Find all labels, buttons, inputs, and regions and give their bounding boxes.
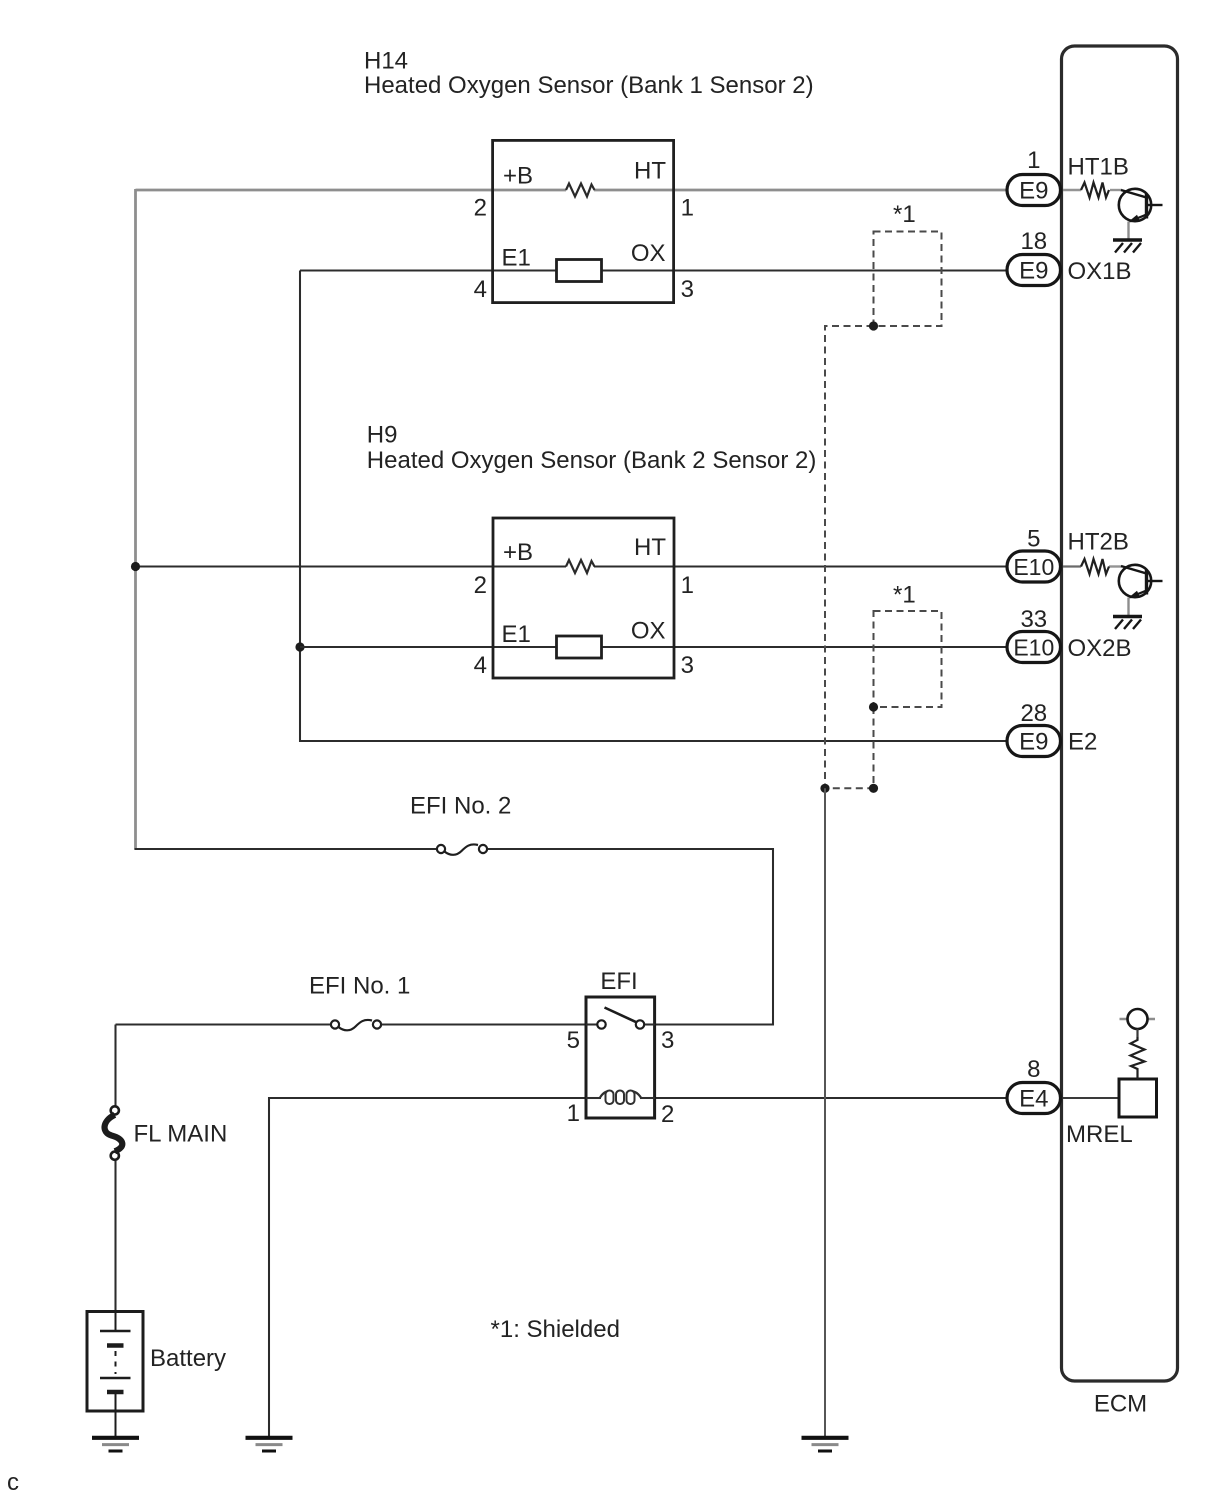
shield drain dashed run from box2 [825,707,874,788]
svg-text:+B: +B [503,539,533,566]
wire: MREL to driver block [1063,1097,1119,1099]
svg-text:E2: E2 [1068,729,1097,756]
wire: +B feed H14 (gray) horizontal y=190 right part to E9 pin1 [594,189,1008,192]
svg-text:EFI: EFI [600,968,637,995]
svg-text:5: 5 [1027,526,1040,553]
fuse EFI No.2 [437,844,487,1028]
ground (battery negative) [92,1438,139,1451]
relay switch wire stubs [586,1023,598,1025]
relay EFI box [586,997,655,1118]
svg-text:E9: E9 [1019,729,1048,756]
svg-text:E9: E9 [1019,178,1048,205]
battery feed symbol (circle) above MREL resistor [1120,1018,1156,1020]
svg-text:HT: HT [634,534,666,561]
wire: HT2B inside ECM (gray) [1063,565,1081,567]
svg-text:1: 1 [1027,147,1040,174]
detection element (zirconia cell) H14 [557,260,602,282]
component H9 heated oxygen sensor box [493,518,674,678]
svg-text:E10: E10 [1013,635,1054,661]
svg-text:3: 3 [681,652,694,679]
SECTION:WIRES [116,184,1009,1438]
wire: sensor ground vertical x=300 [300,271,1007,742]
svg-text:2: 2 [474,572,487,599]
svg-text:*1: *1 [893,201,916,228]
relay switch contact terminals [597,1020,605,1028]
wire: Q2 emitter to ECM ground [1127,598,1129,617]
resistor heater element H14 [566,184,595,197]
battery box [87,1312,143,1412]
ECM enclosure box [1062,46,1178,1381]
resistor HT1B base resistor [1081,183,1109,198]
svg-text:3: 3 [681,276,694,303]
svg-text:28: 28 [1020,700,1047,727]
wire: Q1 emitter to ECM ground [1127,222,1129,240]
svg-text:FL MAIN: FL MAIN [134,1121,228,1148]
detection element (zirconia cell) H9 [557,636,602,658]
svg-text:4: 4 [474,276,487,303]
svg-text:H14: H14 [364,48,408,75]
wire: battery positive vertical x=115.5 [114,1025,116,1107]
svg-text:5: 5 [567,1027,580,1054]
svg-text:E1: E1 [502,245,531,272]
component H14 heated oxygen sensor box [493,140,674,302]
svg-text:33: 33 [1020,606,1047,633]
svg-text:E4: E4 [1019,1086,1048,1113]
svg-text:Heated Oxygen Sensor (Bank 1 S: Heated Oxygen Sensor (Bank 1 Sensor 2) [364,72,814,99]
connector oval E9 pin28 [1007,726,1061,757]
wire: H9 +B feed y=566.5 [136,565,567,567]
resistor MREL pull-up (vertical) [1131,1037,1145,1079]
shield drain dashed run from box1 [825,326,874,788]
svg-text:ECM: ECM [1094,1391,1147,1418]
wire: +B feed H14 (gray) horizontal y=190 left part [136,189,567,192]
wire: relay coil to MREL E4 [655,1097,1007,1099]
junction node shield box1 corner [869,321,878,330]
wire: HT1B inside ECM (gray) [1063,189,1081,191]
svg-text:OX: OX [631,240,666,267]
wire: B+ vertical bus (gray) x=135.5 [134,189,137,849]
relay coil [586,1091,655,1105]
transistor Q1 heater driver (HT1B) [1119,189,1163,223]
battery internal plates [100,1312,131,1437]
relay switch blade [605,1008,638,1023]
svg-text:OX1B: OX1B [1068,258,1132,285]
wire: circle to resistor [1136,1029,1138,1037]
svg-text:1: 1 [567,1100,580,1127]
svg-text:c: c [7,1469,19,1496]
svg-text:Heated Oxygen Sensor (Bank 2 S: Heated Oxygen Sensor (Bank 2 Sensor 2) [367,447,817,474]
svg-text:3: 3 [661,1027,674,1054]
junction node on B+ bus at H9 tap [131,562,140,571]
connector oval E9 pin18 [1007,255,1061,286]
svg-text:2: 2 [661,1101,674,1128]
connector oval E9 pin1 [1007,175,1061,206]
resistor heater element H9 [566,560,595,573]
junction node shield box2 corner [869,702,878,711]
connector oval E10 pin5 [1007,551,1061,582]
svg-text:EFI No. 2: EFI No. 2 [410,793,511,820]
fusible link FL MAIN [105,1106,123,1159]
svg-text:E1: E1 [502,621,531,648]
connector oval E10 pin33 [1007,632,1061,663]
svg-text:HT1B: HT1B [1068,154,1129,181]
svg-text:1: 1 [681,572,694,599]
wire: H14 E1/OX line y=270.5 [300,269,557,271]
svg-text:8: 8 [1027,1056,1040,1083]
ground (ECM internal) for Q1 [1113,240,1142,253]
ground (relay coil return) [246,1438,293,1451]
shield *1 around OX2B wire [874,611,942,707]
transistor Q2 heater driver (HT2B) [1119,565,1163,599]
wire: shield drain to ground x=825 [824,788,826,1437]
ground (ECM internal) for Q2 [1113,617,1142,630]
svg-text:E10: E10 [1013,554,1054,580]
svg-text:*1: *1 [893,582,916,609]
SECTION:SHIELD [825,232,942,789]
ground (shield drain) [802,1438,849,1451]
svg-text:+B: +B [503,163,533,190]
junction node drain join right [869,784,878,793]
svg-text:1: 1 [681,195,694,222]
connector oval E4 pin8 [1007,1083,1061,1114]
svg-text:E9: E9 [1019,258,1048,285]
svg-text:4: 4 [474,652,487,679]
svg-text:*1: Shielded: *1: Shielded [491,1316,620,1343]
junction node drain join left [820,784,829,793]
junction node H9 E1 tap at x=300 [295,642,304,651]
svg-text:HT: HT [634,158,666,185]
svg-text:OX: OX [631,618,666,645]
wire: EFI No.2 branch y=849 [134,848,437,850]
svg-text:MREL: MREL [1066,1121,1133,1148]
svg-text:2: 2 [474,195,487,222]
svg-text:HT2B: HT2B [1068,529,1129,556]
resistor HT2B base resistor [1081,559,1109,574]
svg-text:18: 18 [1020,228,1047,255]
shield *1 around OX1B wire [874,232,942,327]
svg-text:OX2B: OX2B [1068,635,1132,662]
svg-text:Battery: Battery [150,1345,226,1372]
MREL driver block (square) [1119,1079,1157,1117]
wire: H9 E1/OX line y=647 [300,646,557,648]
svg-text:EFI No. 1: EFI No. 1 [309,973,410,1000]
fuse EFI No.1 [331,1020,381,1030]
wire: relay coil to chassis ground [269,1098,586,1437]
wire: EFI No.1 feed y=1024.5 [116,1023,332,1025]
svg-text:H9: H9 [367,422,398,449]
